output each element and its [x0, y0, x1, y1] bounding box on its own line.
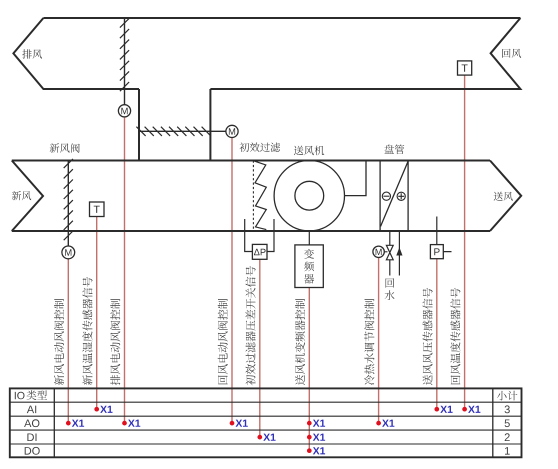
exhaust-return duct (top band)	[13, 18, 520, 89]
label: return air	[502, 49, 521, 58]
label: supply air	[494, 192, 513, 201]
return water pipe	[389, 231, 391, 276]
supply water pipe	[398, 231, 400, 276]
AO point: water valve	[376, 420, 394, 427]
row label AO	[24, 419, 39, 427]
node label: 排风电动风阀控制	[110, 299, 120, 385]
return air temperature sensor T	[458, 61, 472, 75]
DI point: filter dP switch	[257, 434, 275, 441]
wire: return temp sensor signal wire	[464, 75, 466, 409]
AO point: fresh air damper	[66, 420, 84, 427]
AI point: supply pressure sensor	[434, 406, 452, 413]
fresh air temp/humidity sensor T	[90, 202, 105, 217]
row label AI	[27, 406, 36, 414]
supply water flow arrow	[396, 247, 402, 255]
valve actuator M	[373, 246, 388, 257]
label: primary filter	[240, 143, 281, 152]
row label DI	[27, 434, 36, 442]
node label: 回风温度传感器信号	[450, 288, 460, 384]
wire: return damper control signal wire	[231, 138, 233, 424]
node label: 新风温湿度传感器信号	[82, 277, 92, 385]
wire: fresh air T/H sensor signal wire	[96, 217, 98, 410]
recirculation damper (hatched)	[136, 127, 226, 136]
wire: filter dP switch signal wire	[259, 259, 261, 437]
fresh-supply duct (bottom band)	[12, 161, 521, 232]
fan to VFD connection	[308, 231, 310, 245]
supply fan scroll	[274, 161, 366, 231]
label: return water	[385, 278, 395, 300]
DO point: fan VFD start-stop	[307, 447, 325, 454]
node label: 冷热水调节阀控制	[364, 299, 374, 385]
DI subtotal 2	[505, 433, 510, 441]
label: supply fan	[294, 146, 324, 156]
row label DO	[25, 447, 40, 455]
supply pressure probe line	[437, 217, 452, 252]
wire: exhaust damper control signal wire	[124, 117, 126, 423]
label: fresh air damper	[50, 143, 80, 153]
variable frequency drive box	[295, 245, 323, 288]
mixing box right wall	[209, 89, 211, 161]
AI subtotal 3	[505, 405, 510, 413]
wire: water valve control signal wire	[378, 258, 380, 424]
node label: 新风电动风阀控制	[54, 299, 64, 385]
table header IO type	[15, 392, 25, 400]
primary filter frame (dashed)	[252, 161, 254, 232]
AI point: fresh air T/H sensor	[94, 406, 112, 413]
heating/cooling coil	[380, 161, 408, 232]
exhaust air damper (hatched)	[120, 18, 129, 105]
recirculation damper actuator M	[226, 125, 238, 137]
coil plus port	[397, 192, 405, 200]
two-way valve body	[386, 245, 393, 259]
label: VFD	[304, 249, 314, 284]
node label: 送风机变频器控制	[295, 299, 305, 385]
AO subtotal 5	[505, 420, 510, 428]
node label: 初效过滤器压差开关信号	[245, 266, 255, 385]
fresh air damper actuator M	[62, 246, 75, 259]
filter differential pressure switch dP	[252, 244, 267, 259]
mixing box left wall	[138, 89, 140, 161]
AI point: return temp sensor	[462, 406, 480, 413]
DI point: fan VFD status	[307, 434, 325, 441]
node label: 送风风压传感器信号	[422, 288, 432, 385]
DO subtotal 1	[505, 447, 510, 455]
wire: fresh air damper control signal wire	[67, 259, 69, 423]
AO point: exhaust damper	[122, 420, 140, 427]
filter dP sensing tubes	[245, 219, 274, 252]
table header subtotal	[497, 391, 517, 401]
primary filter zigzag media	[254, 161, 267, 230]
label: coil	[384, 145, 404, 155]
wire: supply pressure sensor signal wire	[436, 259, 438, 410]
fresh air damper (hatched)	[64, 159, 73, 246]
IO summary table	[10, 388, 522, 457]
label: fresh air	[12, 191, 31, 200]
node label: 回风电动风阀控制	[218, 299, 228, 384]
exhaust damper actuator M	[118, 105, 130, 117]
label: exhaust air	[22, 49, 42, 58]
coil minus port	[382, 192, 390, 200]
supply air pressure sensor P	[430, 245, 443, 259]
AO point: return damper	[230, 420, 248, 427]
AO point: fan VFD speed	[307, 420, 325, 427]
wire: fan VFD control signal wire	[308, 288, 310, 451]
